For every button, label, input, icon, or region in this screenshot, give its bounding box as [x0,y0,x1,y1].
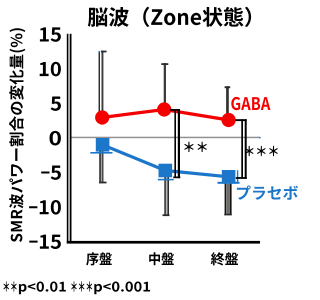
error bar 中盤 upper (GABA) [164,63,166,108]
placebo error bar cap dashes (blue) [90,152,112,154]
error bar 終盤 upper (GABA) [226,86,229,120]
y tick label 5 [51,97,61,111]
placebo marker 中盤 [159,164,173,178]
y tick label 15 [40,27,61,41]
zero gridline [72,137,260,139]
GABA series line (red) [102,110,228,121]
x axis line [67,241,260,244]
x tick label 終盤 [211,252,238,265]
GABA marker 序盤 (red circle) [95,110,109,124]
series label GABA [231,97,270,110]
y tick label 0 [50,131,61,146]
x tick label 序盤 [86,252,112,265]
significance *** at 終盤 [245,146,278,156]
placebo marker 終盤 [222,170,236,184]
significance bracket 中盤 [170,109,180,178]
y tick label −5 [41,166,61,180]
placebo marker 序盤 (blue square) [96,138,110,152]
y tick label 10 [40,62,61,77]
chart title 脳波（Zone状態） [88,7,251,27]
significance ** at 中盤 [184,142,207,152]
significance bracket 終盤 [235,119,246,179]
x tick label 中盤 [149,252,174,265]
y axis line (double stroke) [67,34,69,244]
GABA marker 終盤 [222,113,236,127]
error bar 終盤 lower (placebo) [225,178,227,215]
y tick label −10 [29,200,61,215]
error bar 序盤 upper (GABA) [99,51,100,113]
error bar 中盤 lower (placebo) [164,172,166,216]
GABA marker 中盤 [157,102,171,116]
series label プラセボ [237,185,298,199]
footnote **p<0.01 ***p<0.001 [4,281,151,294]
error bar 序盤 lower (placebo) [99,149,101,183]
y tick label −15 [29,235,61,249]
y-axis label SMR波パワー割合の変化量(%) rotated [9,28,25,242]
placebo series line (blue) [103,145,229,177]
